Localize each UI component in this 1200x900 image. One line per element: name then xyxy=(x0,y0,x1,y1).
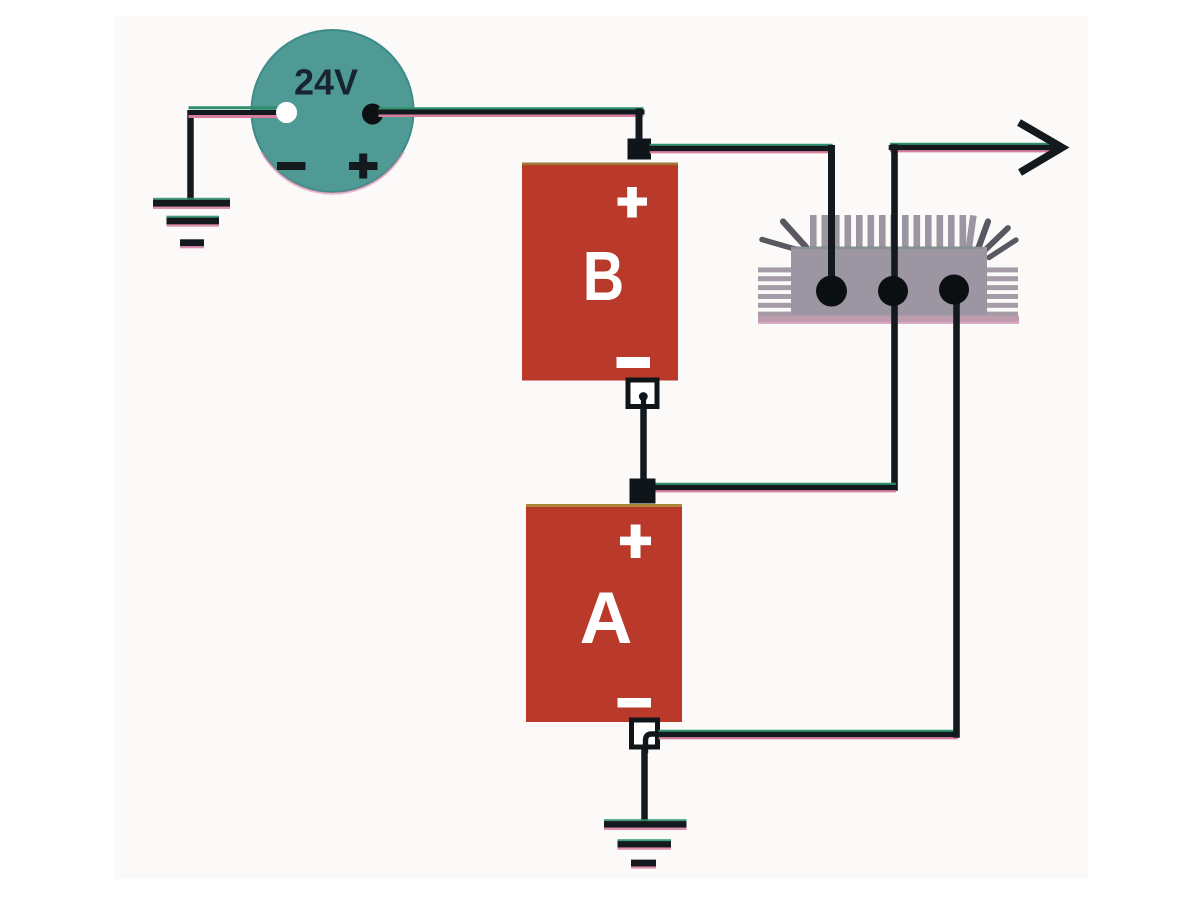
wire: C2 down to ground GND2 xyxy=(641,749,648,824)
connector C1 at battery B negative terminal xyxy=(628,380,657,410)
left fins xyxy=(758,267,791,316)
arrowhead (output) xyxy=(1019,123,1062,173)
battery B xyxy=(522,163,678,381)
heatsink pin 2 xyxy=(878,276,908,306)
plus mark xyxy=(349,154,378,179)
wire: C1 to junction J2 xyxy=(640,408,647,480)
wire: negative lead from 24V source left terminal xyxy=(190,108,281,117)
ground GND1 (source negative) xyxy=(153,198,230,249)
wire: from J1 right toward heatsink pin 1 xyxy=(651,145,832,285)
heatsink pin 3 xyxy=(939,275,969,305)
wire: output line with arrow from heatsink pin 2 xyxy=(891,144,1058,487)
battery A xyxy=(526,504,682,722)
right fins xyxy=(987,267,1018,316)
top-right corner rays xyxy=(978,222,1016,258)
battery A minus mark xyxy=(618,698,652,708)
heatsink body xyxy=(791,247,987,316)
base plate xyxy=(758,316,1019,323)
battery B minus mark xyxy=(617,357,651,368)
top fins xyxy=(810,215,977,250)
minus mark xyxy=(277,162,306,170)
heatsink pin 1 xyxy=(816,276,847,307)
junction J2 at battery A + terminal xyxy=(630,479,656,504)
top-left corner rays xyxy=(762,222,806,251)
base plate pink fringe xyxy=(758,322,1019,324)
body top edge tint xyxy=(793,246,983,249)
terminal hole (negative) xyxy=(276,102,297,123)
wire: from heatsink pin 2 down and left to junction J2 xyxy=(653,484,895,491)
junction J1 at battery B + terminal xyxy=(628,139,652,160)
power source PS1 24V xyxy=(252,30,414,194)
wire: vertical drop to ground GND1 xyxy=(187,110,194,204)
svg-text:A: A xyxy=(580,578,633,659)
terminal dot (positive) xyxy=(362,104,383,125)
heatsink HS1 xyxy=(758,215,1019,324)
terminal hole redraw (negative) xyxy=(276,102,297,123)
connector C2 at battery A negative terminal xyxy=(632,720,662,753)
ground GND2 (battery A negative) xyxy=(604,819,687,868)
wire: from C2 right to heatsink pin 3 xyxy=(660,295,957,738)
svg-text:B: B xyxy=(583,237,624,316)
svg-text:24V: 24V xyxy=(294,62,358,103)
battery A plus mark xyxy=(620,525,651,559)
wire: from source + terminal to battery B top xyxy=(380,109,642,140)
battery B plus mark xyxy=(618,187,648,218)
